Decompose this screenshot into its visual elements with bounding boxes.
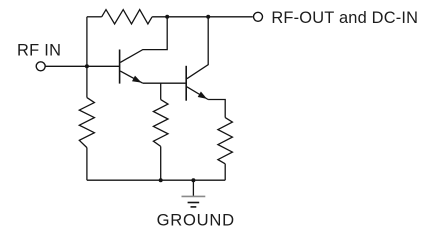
transistor Q2 base bar xyxy=(185,66,187,101)
transistor Q1 emitter xyxy=(120,71,143,83)
node top rail junction B xyxy=(206,15,210,19)
transistor Q2 emitter xyxy=(187,87,208,100)
wire left vertical xyxy=(86,17,88,98)
wire R2 bottom lead xyxy=(86,148,88,181)
svg-text:RF IN: RF IN xyxy=(17,42,61,60)
resistor R1 (top feedback) xyxy=(102,10,152,24)
wire Q1 emitter to Q2 base xyxy=(143,82,186,84)
wire Q2 emitter lead xyxy=(208,100,225,118)
wire R3 bottom lead xyxy=(160,146,162,180)
transistor Q1 base bar xyxy=(119,50,121,84)
wire top to output terminal xyxy=(152,16,253,18)
transistor Q2 emitter arrow xyxy=(198,92,207,99)
resistor R3 (bias shunt) xyxy=(153,100,168,147)
wire top-left segment xyxy=(87,16,102,18)
svg-text:RF-OUT and DC-IN: RF-OUT and DC-IN xyxy=(271,9,418,27)
resistor R3 top lead xyxy=(160,83,162,99)
node bottom rail junction R3 xyxy=(159,178,163,182)
wire ground stub xyxy=(192,180,194,196)
wire bottom rail xyxy=(87,179,225,181)
transistor Q2 collector xyxy=(187,17,208,79)
resistor R2 (input shunt) xyxy=(79,98,94,148)
wire RF input xyxy=(45,65,119,67)
node Q1 base junction xyxy=(85,64,89,68)
node top rail junction A xyxy=(165,15,169,19)
terminal RF-OUT and DC-IN xyxy=(254,12,263,21)
wire R4 bottom lead xyxy=(224,164,226,180)
terminal RF IN xyxy=(36,62,45,71)
svg-text:GROUND: GROUND xyxy=(157,211,235,230)
transistor Q1 collector xyxy=(120,17,167,63)
transistor Q1 emitter arrow xyxy=(132,76,142,83)
resistor R4 (emitter) xyxy=(218,118,233,164)
ground xyxy=(182,196,206,207)
node bottom rail junction ground xyxy=(191,178,195,182)
